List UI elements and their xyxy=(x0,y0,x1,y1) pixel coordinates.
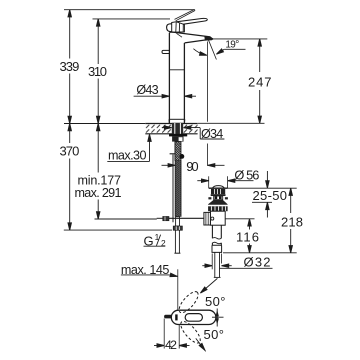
svg-text:116: 116 xyxy=(236,230,259,245)
waste side tabs xyxy=(208,197,211,199)
svg-text:Ø34: Ø34 xyxy=(201,127,223,141)
extension line rod level minmax xyxy=(95,218,157,220)
svg-text:25-50: 25-50 xyxy=(253,188,288,203)
pop-up rod coupler xyxy=(157,217,163,219)
svg-text:2: 2 xyxy=(161,238,166,248)
extension line spout outlet right (247 top) xyxy=(212,38,268,40)
svg-text:Ø32: Ø32 xyxy=(244,254,271,269)
deck cross-section xyxy=(145,124,197,134)
svg-text:339: 339 xyxy=(60,59,80,74)
extension line top 339 level xyxy=(64,9,195,11)
ball joint xyxy=(211,217,214,220)
svg-text:90: 90 xyxy=(186,159,198,174)
flexible hose braided xyxy=(175,161,181,217)
extension line pipe-end level xyxy=(223,252,297,254)
waste plug grooved block xyxy=(211,189,225,194)
dimension diam43 underline and arrows xyxy=(134,95,170,97)
raised lever thin lines xyxy=(175,10,195,20)
dimension 218 vertical line xyxy=(290,188,292,213)
svg-text:50°: 50° xyxy=(205,294,226,309)
waste neck with holes xyxy=(214,196,223,200)
svg-text:Ø43: Ø43 xyxy=(136,83,158,97)
hose outlet dot xyxy=(180,154,185,159)
dimension 339 vertical line xyxy=(69,10,71,59)
faucet body column xyxy=(168,33,170,124)
G 1/2 label underline xyxy=(144,245,166,247)
spout head top slope xyxy=(169,32,210,37)
right angle marker xyxy=(216,309,218,327)
upper 50 leader xyxy=(201,278,217,292)
dimension 42 ext lines xyxy=(163,319,165,349)
horizontal pop-up rod xyxy=(169,217,204,219)
svg-text:218: 218 xyxy=(281,214,303,229)
waste slotted band xyxy=(208,206,228,211)
svg-text:Ø 56: Ø 56 xyxy=(234,168,259,183)
waste flange top line xyxy=(209,187,228,189)
waste rod nut xyxy=(204,212,211,225)
extension line flange-top right xyxy=(228,187,297,189)
spout underside xyxy=(185,39,214,43)
G 1/2 hose nut xyxy=(173,226,182,230)
extension line 310 level xyxy=(93,18,171,20)
spout root detail xyxy=(176,33,182,37)
faucet shank in deck hole xyxy=(172,123,183,134)
narrow tube below xyxy=(214,252,216,277)
top view nub xyxy=(165,315,172,318)
19-degree angle arc arrow xyxy=(193,49,204,55)
threaded shank xyxy=(175,142,181,161)
mounting flange bar xyxy=(169,134,187,136)
pipe end fitting xyxy=(212,245,222,252)
Ø32 arrows xyxy=(202,265,212,267)
pop-up waste: Ø56 extension lines xyxy=(208,176,210,188)
19-degree stream line xyxy=(208,40,216,60)
waste collar band xyxy=(211,194,226,196)
Ø34 label box xyxy=(199,128,201,139)
svg-text:247: 247 xyxy=(248,75,272,90)
25-50 underline xyxy=(252,201,272,203)
mounting nut xyxy=(172,136,183,141)
top view lever stadium xyxy=(171,310,216,324)
svg-text:310: 310 xyxy=(88,64,107,79)
19-degree leader xyxy=(224,48,245,50)
dimension min177/max291 vertical line xyxy=(97,124,99,173)
max.30 leader xyxy=(107,160,149,162)
top view centre line xyxy=(177,269,179,310)
svg-text:370: 370 xyxy=(60,144,80,159)
dimension 116 vertical line xyxy=(249,219,251,230)
svg-text:max.30: max.30 xyxy=(108,149,147,163)
pull rod vertical xyxy=(172,155,174,223)
svg-text:50°: 50° xyxy=(204,327,225,342)
body joint line xyxy=(169,69,184,71)
pipe break squiggle xyxy=(212,238,221,240)
svg-text:42: 42 xyxy=(165,338,177,352)
dashed oval upper (lever at 50 deg up) xyxy=(176,289,201,316)
pull-rod knob xyxy=(162,50,169,53)
dimension Ø34 arrows at deck xyxy=(162,127,172,129)
extension deck-top right xyxy=(198,122,265,124)
G 1/2 fraction slash xyxy=(156,235,160,246)
tailpipe upper xyxy=(211,225,213,238)
extension line hose-end 370 xyxy=(64,229,172,231)
aerator outlet xyxy=(205,36,213,40)
svg-text:19°: 19° xyxy=(225,40,239,51)
extension line rod level right xyxy=(225,218,254,220)
dimension Ø32 ext lines xyxy=(211,254,213,270)
dimension 247 vertical line xyxy=(259,39,261,72)
dimension 25-50 arrows xyxy=(266,171,268,187)
svg-text:G: G xyxy=(144,233,154,248)
spout outlet extension line xyxy=(207,42,209,122)
hose threaded end tube xyxy=(174,230,176,253)
extension line deck-left xyxy=(64,123,145,125)
42 arrows xyxy=(154,345,164,347)
svg-text:max. 291: max. 291 xyxy=(75,186,122,200)
pull rod bracket xyxy=(170,153,176,155)
Ø32 label underline leader xyxy=(220,267,273,269)
lever handle at rest xyxy=(176,18,207,24)
hose end neck xyxy=(176,217,180,226)
svg-text:1: 1 xyxy=(155,232,160,242)
waste body xyxy=(210,211,225,225)
max.145 underline and leader xyxy=(121,274,170,276)
dimension 370 vertical line xyxy=(69,124,71,144)
waste plug dome xyxy=(212,186,224,188)
lever cartridge block xyxy=(172,22,185,32)
dashed oval lower (lever at 50 deg down) xyxy=(178,319,204,346)
lower 50 leader xyxy=(196,338,206,351)
waste bell xyxy=(208,200,228,205)
lever cap left xyxy=(167,24,172,32)
dimension 310 vertical line xyxy=(97,19,99,64)
escutcheon base line xyxy=(169,118,185,120)
top view slot xyxy=(185,314,202,322)
svg-text:max. 145: max. 145 xyxy=(121,263,169,277)
dimension 90 left tail xyxy=(162,164,176,166)
Ø56 dimension arrows xyxy=(197,180,208,182)
dimension 90 right tail xyxy=(208,164,225,166)
top view inner tick xyxy=(175,314,177,320)
